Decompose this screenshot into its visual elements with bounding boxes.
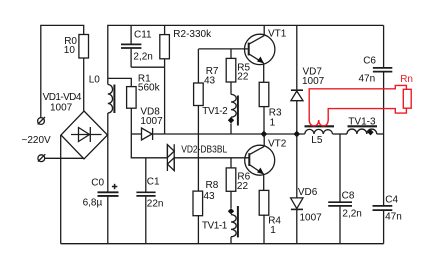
svg-text:VD6: VD6 (298, 187, 318, 198)
svg-text:R2-330k: R2-330k (173, 29, 212, 40)
wire C0 to bottom rail (107, 197, 109, 244)
svg-text:C4: C4 (385, 195, 398, 206)
svg-text:10: 10 (64, 45, 76, 56)
svg-text:1007: 1007 (300, 213, 323, 224)
inductor L0 (108, 85, 115, 114)
wire bridge right vertex to L0 and C0 (107, 113, 109, 192)
capacitor C6 (373, 25, 392, 134)
diode VD7 (291, 25, 303, 134)
svg-text:TV1-2: TV1-2 (202, 106, 228, 117)
wire branch rail to R1 (108, 78, 132, 86)
svg-text:~220V: ~220V (22, 135, 52, 146)
svg-text:1007: 1007 (140, 116, 163, 127)
junction VD7 bus (294, 131, 301, 138)
svg-text:1: 1 (270, 225, 276, 236)
wire bottom rail (61, 243, 384, 245)
svg-text:560k: 560k (138, 83, 161, 94)
svg-text:L5: L5 (311, 135, 323, 146)
diac VD2-DB3BL (167, 144, 174, 171)
wire VD8 node down and right to diac (131, 134, 167, 158)
svg-text:VD2-DB3BL: VD2-DB3BL (181, 144, 227, 155)
svg-text:VT1: VT1 (268, 29, 287, 40)
resistor R6 (226, 158, 236, 208)
svg-text:TV1-3: TV1-3 (348, 116, 376, 127)
svg-text:Rn: Rn (400, 74, 413, 85)
resistor Rn (403, 89, 411, 108)
svg-text:47n: 47n (359, 73, 376, 84)
resistor R1 (127, 87, 137, 109)
svg-text:47n: 47n (385, 212, 402, 223)
wire red top (309, 85, 406, 120)
svg-text:C8: C8 (342, 191, 355, 202)
svg-text:2,2n: 2,2n (342, 208, 361, 219)
transformer winding TV1-2 (228, 94, 238, 134)
svg-text:22n: 22n (147, 198, 164, 209)
transistor VT2 (245, 134, 275, 190)
bridge rectifier VD1-VD4 (61, 111, 108, 159)
wire bridge left vertex down (60, 135, 62, 244)
wire TV1-3 to right rail (377, 133, 384, 135)
inductor L5 (305, 126, 335, 134)
resistor R7 (194, 49, 204, 158)
svg-text:VT2: VT2 (268, 138, 287, 149)
wire top rail left segment (41, 25, 84, 117)
wire L0 top to right rail (108, 25, 384, 84)
svg-text:22: 22 (237, 181, 249, 192)
resistor R0 (79, 35, 89, 59)
diode VD8 (131, 128, 164, 140)
wire R0 to bridge top (83, 58, 85, 111)
wire C11 bottom to R2 bottom (131, 66, 165, 68)
svg-text:TV1-1: TV1-1 (202, 221, 228, 232)
resistor R3 (259, 82, 269, 134)
svg-text:2,2n: 2,2n (133, 51, 152, 62)
svg-text:C11: C11 (134, 29, 152, 40)
terminal upper (38, 117, 45, 124)
resistor R8 (193, 158, 203, 244)
svg-text:R8: R8 (206, 180, 219, 191)
svg-text:C0: C0 (91, 177, 104, 188)
resistor R2 (160, 25, 170, 67)
svg-text:C1: C1 (147, 177, 160, 188)
wire R2 node down to bus (164, 67, 166, 134)
capacitor C1 (136, 158, 155, 244)
svg-text:C6: C6 (363, 55, 376, 66)
svg-text:43: 43 (204, 76, 216, 87)
capacitor C11 (121, 25, 141, 67)
resistor R5 (226, 49, 236, 94)
red winding taps (309, 119, 328, 126)
wire L5 to TV1-3 (333, 133, 348, 135)
wire middle bus (165, 133, 305, 135)
svg-text:1007: 1007 (50, 102, 73, 113)
transistor VT1 (245, 25, 275, 82)
svg-text:L0: L0 (89, 75, 101, 86)
diode VD6 (291, 134, 303, 244)
svg-text:1007: 1007 (302, 76, 325, 87)
wire VT1 base (198, 48, 248, 50)
wire diac to VT2 base (174, 157, 249, 159)
resistor R4 (259, 190, 269, 243)
capacitor C0 (98, 184, 119, 196)
svg-text:1: 1 (270, 117, 276, 128)
transformer winding TV1-1 (228, 206, 238, 244)
wire red bottom (328, 108, 406, 120)
load Rn red circuit (309, 85, 411, 125)
terminal lower (38, 154, 45, 161)
junction R3 bus (261, 131, 268, 138)
svg-text:6,8µ: 6,8µ (83, 197, 103, 208)
wire R1 down to VD8 node (130, 108, 132, 134)
transformer winding TV1-3 (347, 126, 377, 135)
capacitor C8 (328, 134, 352, 244)
svg-text:43: 43 (204, 191, 216, 202)
svg-text:22: 22 (237, 72, 249, 83)
wire lower terminal to bridge bottom (45, 157, 84, 159)
capacitor C4 (373, 134, 393, 244)
